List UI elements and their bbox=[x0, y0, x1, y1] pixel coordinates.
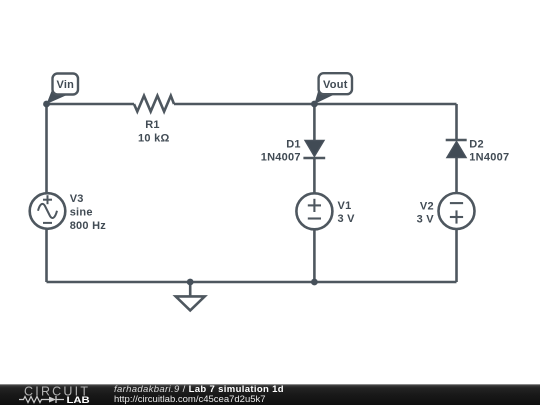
node ground junction dot bbox=[187, 279, 194, 286]
voltage source V1 bbox=[296, 193, 332, 229]
wire middle vertical above D1 bbox=[313, 104, 316, 140]
svg-text:sine: sine bbox=[70, 207, 93, 219]
footer attribution bar bbox=[0, 384, 540, 405]
diode D2 bbox=[446, 140, 467, 158]
svg-text:800 Hz: 800 Hz bbox=[70, 220, 107, 232]
node flag Vout bbox=[314, 73, 352, 104]
wire ground stub bbox=[189, 282, 192, 296]
wire bottom horizontal bbox=[47, 281, 457, 284]
wire middle below V1 bbox=[313, 229, 316, 282]
svg-text:V2: V2 bbox=[420, 201, 434, 213]
svg-text:V3: V3 bbox=[70, 193, 84, 205]
attribution line 1 bbox=[114, 385, 284, 395]
wire middle between D1 and V1 bbox=[313, 158, 316, 193]
svg-text:D2: D2 bbox=[469, 139, 484, 151]
node Vout junction dot bbox=[311, 101, 318, 108]
svg-text:V1: V1 bbox=[338, 200, 352, 212]
wire top from resistor to Vout node bbox=[174, 103, 314, 106]
wire left vertical upper bbox=[45, 104, 48, 193]
svg-text:10 kΩ: 10 kΩ bbox=[138, 133, 169, 145]
wire top from Vout node to top-right corner bbox=[314, 103, 456, 106]
svg-text:1N4007: 1N4007 bbox=[469, 152, 509, 164]
node Vin junction dot bbox=[43, 101, 50, 108]
voltage source V3 (sine) bbox=[30, 193, 66, 229]
ground symbol bbox=[176, 296, 205, 310]
svg-text:3 V: 3 V bbox=[338, 213, 356, 225]
svg-text:D1: D1 bbox=[286, 139, 301, 151]
resistor R1 zigzag bbox=[134, 96, 174, 112]
svg-text:1N4007: 1N4007 bbox=[261, 152, 301, 164]
node flag Vin bbox=[47, 74, 79, 105]
CircuitLab logo bbox=[0, 384, 100, 405]
node bottom-middle junction dot bbox=[311, 279, 318, 286]
wire top from Vin node to resistor bbox=[47, 103, 135, 106]
svg-text:3 V: 3 V bbox=[417, 214, 435, 226]
wire right between D2 and V2 bbox=[455, 158, 458, 194]
svg-text:LAB: LAB bbox=[67, 395, 90, 405]
svg-text:Vout: Vout bbox=[323, 79, 348, 91]
attribution line 2 bbox=[114, 395, 266, 405]
svg-text:R1: R1 bbox=[145, 119, 160, 131]
wire right below V2 bbox=[455, 229, 458, 282]
voltage source V2 bbox=[439, 193, 475, 229]
svg-text:Vin: Vin bbox=[56, 79, 74, 91]
diode D1 bbox=[303, 140, 325, 158]
wire right vertical above D2 bbox=[455, 104, 458, 140]
wire left vertical lower bbox=[45, 229, 48, 282]
